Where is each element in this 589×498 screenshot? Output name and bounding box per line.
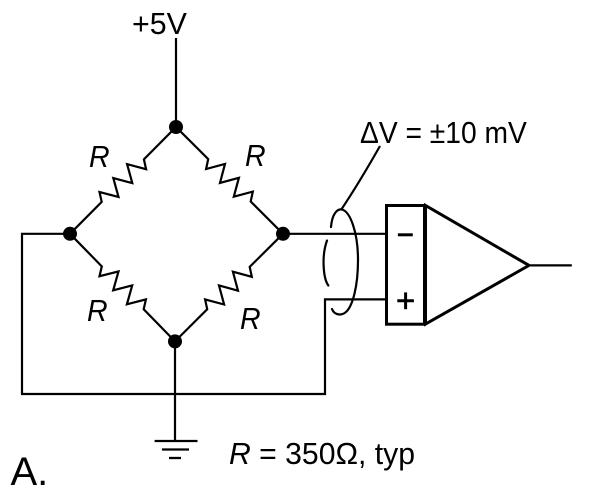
label A. (11, 450, 49, 495)
label R upper-left (89, 139, 110, 175)
resistor R4 (lower right, with zigzag) (175, 234, 283, 342)
node left (junction dot) (63, 227, 77, 241)
label R lower-left (87, 293, 108, 329)
resistor R3 (lower left, with zigzag) (70, 234, 175, 342)
op-amp U1 triangle (426, 206, 530, 325)
label R lower-right (240, 301, 261, 337)
node bottom (junction dot) (168, 334, 182, 348)
op-amp U1 plus pin label (397, 292, 414, 309)
leader line from ΔV label to loop (341, 146, 380, 210)
resistor R2 (upper right, with zigzag) (176, 127, 283, 234)
wire bottom node to ground (174, 341, 176, 441)
ground (155, 441, 198, 458)
loop annotation around input pair (main stroke) (331, 209, 358, 314)
wire op-amp output (531, 264, 572, 266)
resistor R1 (upper left, with zigzag) (70, 127, 176, 234)
label delta-V (360, 115, 527, 151)
wire +5V supply down to top node (175, 38, 177, 127)
label R upper-right (245, 138, 266, 174)
label +5V (132, 6, 187, 42)
wire from right bridge node to op-amp - input (283, 233, 387, 235)
op-amp U1 input box (387, 206, 425, 325)
op-amp U1 minus pin label (398, 233, 413, 236)
loop annotation left arc (324, 241, 329, 286)
wire from left bridge node around to op-amp + input (22, 234, 387, 394)
node right (junction dot) (276, 227, 290, 241)
node top (junction dot) (169, 120, 183, 134)
label R = 350 ohm typ (229, 436, 415, 472)
